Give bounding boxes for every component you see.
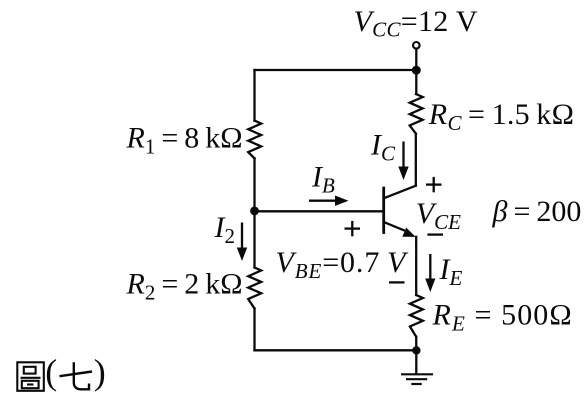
wire base xyxy=(255,210,384,212)
svg-text:(: ( xyxy=(45,352,57,392)
arrow I2 xyxy=(237,223,247,262)
wire left rail upper xyxy=(253,70,255,121)
svg-text:β = 200: β = 200 xyxy=(492,195,582,228)
resistor RE xyxy=(410,295,423,337)
resistor RC xyxy=(410,94,423,134)
wire collector diagonal xyxy=(384,186,415,198)
arrow IE xyxy=(425,254,435,292)
plus VBE xyxy=(345,221,361,236)
wire collector vertical xyxy=(415,134,417,186)
arrow IB xyxy=(309,196,349,206)
VCC terminal circle xyxy=(413,42,420,49)
resistor R2 xyxy=(248,268,261,309)
node VCC junction dot xyxy=(412,66,421,75)
transistor Q1 emitter diagonal xyxy=(384,222,408,232)
caption glyph QI (seven) xyxy=(60,362,93,389)
svg-text:R2 = 2 kΩ: R2 = 2 kΩ xyxy=(126,268,243,305)
node base junction dot xyxy=(250,207,259,216)
minus VBE xyxy=(389,281,405,283)
wire top rail xyxy=(255,69,417,71)
wire bottom rail xyxy=(255,349,417,351)
ground stem xyxy=(415,350,417,373)
resistor R1 xyxy=(248,121,261,159)
arrow IC xyxy=(398,142,408,181)
minus VCE xyxy=(427,233,443,235)
svg-text:R1 = 8 kΩ: R1 = 8 kΩ xyxy=(126,122,243,159)
plus VCE xyxy=(426,177,442,192)
wire left rail lower xyxy=(253,309,255,351)
wire right rail upper xyxy=(415,70,417,94)
transistor Q1 base bar xyxy=(382,188,385,233)
caption glyph TU (picture) xyxy=(17,362,44,391)
transistor Q1 emitter arrowhead xyxy=(402,228,415,237)
wire left rail middle xyxy=(253,158,255,267)
ground bars xyxy=(401,374,433,384)
wire emitter vertical xyxy=(415,237,417,295)
wire VCC stub xyxy=(415,49,417,70)
node emitter-ground junction dot xyxy=(412,346,420,354)
wire emitter lower xyxy=(415,337,417,351)
svg-text:): ) xyxy=(94,352,106,392)
